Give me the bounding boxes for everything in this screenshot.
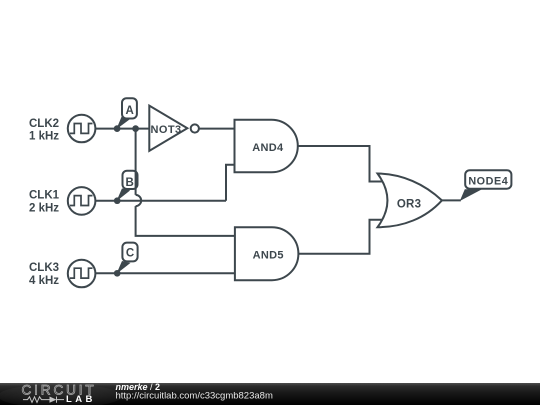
AND gate AND5	[235, 227, 299, 280]
svg-text:LAB: LAB	[66, 394, 96, 405]
svg-text:CLK2: CLK2	[29, 118, 59, 130]
node flag C	[116, 243, 137, 274]
footer bar	[0, 383, 540, 405]
wire NOT3 output to AND4 top input	[199, 128, 235, 130]
junction node C flag attach	[114, 270, 121, 277]
wire CLK3 to AND5 bottom input	[95, 272, 235, 274]
node flag NODE4	[460, 170, 512, 201]
svg-text:4 kHz: 4 kHz	[29, 275, 59, 287]
node flag A	[116, 98, 137, 129]
AND gate AND4	[235, 120, 298, 173]
svg-text:2 kHz: 2 kHz	[29, 203, 59, 215]
svg-text:NOT3: NOT3	[151, 124, 182, 136]
clock source CLK3	[68, 260, 96, 288]
svg-text:NODE4: NODE4	[468, 175, 508, 187]
junction branch to AND5	[132, 125, 139, 132]
wire branch A down to AND5 top input with hop over CLK1 wire	[136, 129, 235, 236]
svg-text:C: C	[126, 247, 134, 259]
svg-text:http://circuitlab.com/c33cgmb8: http://circuitlab.com/c33cgmb823a8m	[116, 390, 273, 401]
clock source CLK1	[68, 187, 96, 215]
svg-text:AND5: AND5	[253, 250, 284, 262]
svg-text:1 kHz: 1 kHz	[29, 131, 59, 143]
svg-text:A: A	[126, 105, 134, 117]
svg-text:OR3: OR3	[397, 198, 422, 210]
label CLK2 1 kHz	[29, 118, 59, 143]
wire CLK1 to AND4 corner	[95, 200, 226, 202]
wire CLK2 to NOT3 input	[95, 128, 149, 130]
wire AND4 output to OR3 top input	[298, 146, 384, 182]
svg-text:CLK3: CLK3	[29, 262, 59, 274]
wire AND5 output to OR3 bottom input	[298, 220, 383, 254]
OR gate OR3	[378, 174, 442, 228]
CircuitLab logo	[22, 383, 97, 405]
junction node B flag attach	[114, 197, 121, 204]
clock source CLK2	[68, 115, 96, 143]
inverter NOT3	[149, 106, 199, 151]
svg-text:B: B	[126, 177, 134, 189]
svg-text:CLK1: CLK1	[29, 190, 60, 202]
junction node A flag attach	[114, 125, 121, 132]
svg-text:AND4: AND4	[252, 142, 284, 154]
wire node B to AND4 bottom input	[226, 165, 235, 201]
node flag B	[116, 171, 137, 202]
label CLK1 2 kHz	[29, 190, 60, 215]
label CLK3 4 kHz	[29, 262, 59, 287]
wire OR3 output	[442, 199, 461, 201]
